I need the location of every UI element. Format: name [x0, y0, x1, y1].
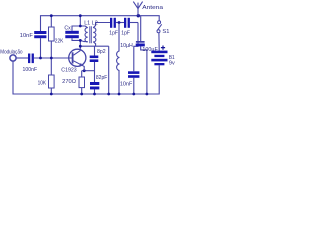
- wire 8p2 top lead: [94, 46, 96, 55]
- node collector: [79, 45, 82, 48]
- wire switch to battery: [158, 33, 160, 51]
- wire 22K bottom lead: [50, 41, 52, 58]
- wire base to 10K: [50, 58, 52, 75]
- svg-text:10µH: 10µH: [120, 43, 133, 49]
- wire 10nF2 bottom lead: [133, 78, 135, 94]
- svg-text:8p2: 8p2: [97, 49, 106, 55]
- svg-text:L1: L1: [84, 21, 90, 27]
- node gnd-choke: [118, 93, 121, 96]
- capacitor 10nF antenna filter: [128, 71, 139, 77]
- svg-text:270Ω: 270Ω: [62, 79, 76, 85]
- emitter arrow head: [79, 63, 82, 66]
- capacitor 10nF (top-left): [34, 31, 46, 38]
- wire antenna line down: [134, 23, 138, 72]
- wire top supply rail: [41, 16, 160, 31]
- svg-text:C1923: C1923: [61, 68, 76, 74]
- node gnd-L2: [107, 93, 110, 96]
- node gnd-10K: [50, 93, 53, 96]
- svg-text:22K: 22K: [55, 38, 64, 44]
- node tank top: [79, 25, 82, 28]
- node rail-tank: [79, 14, 82, 17]
- transformer core: [90, 26, 92, 43]
- svg-text:100nF: 100nF: [23, 67, 38, 73]
- wire L1 top lead: [80, 26, 87, 28]
- wire 82pF bottom lead: [94, 89, 96, 94]
- wire choke bottom lead: [118, 71, 120, 95]
- wire 270R top lead: [81, 71, 83, 77]
- svg-text:10nF: 10nF: [120, 81, 133, 87]
- capacitor Cx: [65, 31, 79, 38]
- node base-10nF: [39, 57, 42, 60]
- svg-text:S1: S1: [162, 29, 169, 35]
- capacitor 1pF second: [124, 18, 130, 28]
- wire ground drop from feedback row: [108, 46, 110, 94]
- wire bottom ground rail: [13, 61, 159, 94]
- wire L2 bottom lead: [93, 42, 95, 47]
- switch S1: [157, 21, 162, 33]
- wire Cx bottom lead: [72, 38, 80, 40]
- inductor L2: [93, 28, 96, 42]
- resistor 270R emitter: [79, 77, 85, 88]
- wire base line: [34, 57, 72, 59]
- node 1pF midpoint: [118, 21, 121, 24]
- capacitor 100nF: [28, 54, 34, 64]
- node gnd-82pF: [93, 93, 96, 96]
- wire 100uF bottom lead: [141, 46, 147, 94]
- svg-text:Antena: Antena: [142, 5, 164, 11]
- svg-text:1pF: 1pF: [109, 31, 118, 37]
- svg-text:Modulação: Modulação: [0, 49, 22, 55]
- svg-text:L2: L2: [92, 21, 98, 27]
- battery B1 9v: [151, 51, 167, 66]
- wire choke top lead: [118, 23, 120, 52]
- node rail-antenna: [137, 14, 140, 17]
- svg-text:9v: 9v: [169, 60, 175, 66]
- wire 1pF2 to antenna: [130, 22, 138, 24]
- node gnd-10nF2: [132, 93, 135, 96]
- capacitor 82pF emitter bypass: [90, 82, 99, 89]
- svg-text:10K: 10K: [38, 81, 47, 87]
- capacitor 1pF first: [110, 18, 116, 28]
- wire Cx top lead: [72, 26, 80, 31]
- wire 22K top lead: [50, 16, 52, 27]
- wire 8p2 to 82pF: [94, 62, 96, 82]
- capacitor 8p2 feedback: [90, 56, 99, 63]
- wire collector: [79, 40, 81, 50]
- node emitter: [83, 69, 86, 72]
- battery plus sign: [161, 46, 165, 50]
- antenna: [133, 2, 142, 16]
- resistor 22K: [49, 27, 55, 41]
- node rail-22K: [50, 14, 53, 17]
- svg-text:82pF: 82pF: [96, 75, 108, 81]
- node gnd-100uF: [146, 93, 149, 96]
- wire jack to 100nF: [16, 57, 28, 59]
- wire 10K bottom lead: [50, 88, 52, 94]
- junction dots: [39, 14, 148, 95]
- transistor Q1 C1923: [69, 49, 86, 71]
- svg-text:Cx: Cx: [64, 25, 71, 31]
- node gnd-270R: [80, 93, 83, 96]
- capacitor 100uF electrolytic: [136, 41, 145, 43]
- wire emitter row: [82, 70, 95, 72]
- resistor 10K: [49, 75, 55, 88]
- wire 100uF top lead: [140, 16, 142, 41]
- node tank bottom: [79, 39, 82, 42]
- svg-text:10nF: 10nF: [20, 33, 34, 39]
- wire 10nF C1 bottom lead: [40, 38, 42, 58]
- input jack Modulacao: [10, 55, 16, 61]
- inductor 10uH choke: [117, 51, 120, 71]
- wire 1pF link: [116, 22, 124, 24]
- inductor L1: [85, 28, 88, 42]
- wire 270R bottom lead: [81, 88, 83, 94]
- wire L2 top lead: [93, 23, 110, 28]
- wire collector node to feedback row: [80, 45, 108, 47]
- svg-text:1pF: 1pF: [121, 31, 130, 37]
- wire tank top stub: [79, 16, 81, 26]
- node base-divider: [50, 57, 53, 60]
- wire L1 bottom lead: [80, 40, 87, 41]
